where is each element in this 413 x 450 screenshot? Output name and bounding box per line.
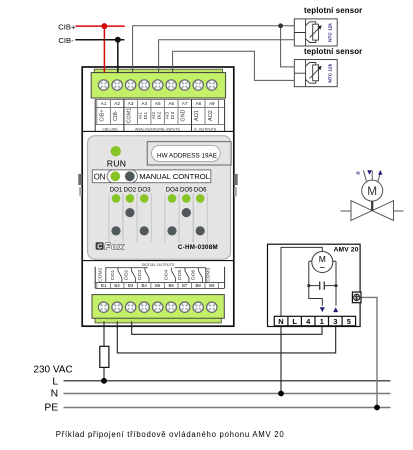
svg-text:CIB+: CIB+ [100,110,106,122]
svg-text:COM2: COM2 [97,267,103,281]
svg-text:DI1: DI1 [143,112,149,120]
svg-text:DO5: DO5 [177,269,183,279]
svg-text:ON: ON [94,172,106,181]
svg-text:A5: A5 [155,101,161,106]
svg-text:B6: B6 [169,283,175,288]
svg-text:NTC 12k: NTC 12k [328,23,333,42]
svg-text:AI1: AI1 [138,112,144,120]
svg-text:3: 3 [333,317,337,326]
svg-text:AMV 20: AMV 20 [334,246,359,253]
svg-text:B2: B2 [114,283,120,288]
svg-text:N: N [51,389,59,400]
svg-text:HW ADDRESS 19AE: HW ADDRESS 19AE [157,152,217,159]
svg-text:A9: A9 [209,101,215,106]
svg-text:A3: A3 [128,101,134,106]
svg-text:DI3: DI3 [170,112,176,120]
svg-text:RUN: RUN [107,158,127,168]
svg-text:B7: B7 [182,283,188,288]
svg-text:teplotní sensor: teplotní sensor [304,6,362,15]
svg-text:AO2: AO2 [208,110,214,121]
svg-text:CIB-: CIB- [58,36,74,45]
svg-text:CIB-: CIB- [113,110,119,121]
svg-text:PE: PE [44,402,58,413]
svg-text:A1: A1 [101,101,107,106]
svg-text:L: L [52,376,58,387]
svg-text:AI3: AI3 [165,112,171,120]
svg-text:teplotní sensor: teplotní sensor [304,47,362,56]
svg-text:A8: A8 [195,101,201,106]
svg-text:COM3: COM3 [205,267,211,281]
svg-text:MANUAL CONTROL: MANUAL CONTROL [139,172,210,181]
svg-text:COM1: COM1 [127,108,133,124]
svg-text:Příklad připojení tříbodově ov: Příklad připojení tříbodově ovládaného p… [56,430,285,439]
svg-text:A4: A4 [141,101,147,106]
svg-text:DO1: DO1 [110,269,116,279]
svg-text:DO3: DO3 [138,186,151,193]
svg-text:N: N [278,317,283,326]
svg-text:DO6: DO6 [194,186,207,193]
svg-text:A6: A6 [168,101,174,106]
svg-text:DO2: DO2 [123,269,129,279]
svg-text:GND: GND [181,110,187,122]
svg-text:1: 1 [320,317,324,326]
svg-text:Fox: Fox [104,241,124,252]
svg-text:B3: B3 [128,283,134,288]
svg-text:NTC 12k: NTC 12k [328,63,333,82]
svg-text:DO4: DO4 [163,269,169,279]
svg-text:DI2: DI2 [156,112,162,120]
svg-text:DIGITAL OUTPUTS: DIGITAL OUTPUTS [142,263,175,267]
svg-text:DO6: DO6 [190,269,196,279]
svg-text:DO4: DO4 [166,186,179,193]
svg-text:DO5: DO5 [180,186,193,193]
svg-text:DO1: DO1 [110,186,123,193]
svg-text:B5: B5 [155,283,161,288]
svg-text:230 VAC: 230 VAC [33,365,72,376]
svg-text:CIB+: CIB+ [58,22,76,31]
svg-text:DO2: DO2 [124,186,137,193]
svg-text:A7: A7 [182,101,188,106]
svg-text:M: M [367,184,377,198]
svg-text:C-HM-0308M: C-HM-0308M [178,244,218,251]
svg-text:B4: B4 [142,283,148,288]
svg-text:AI2: AI2 [151,112,157,120]
svg-text:DO3: DO3 [137,269,143,279]
svg-text:L: L [292,317,297,326]
svg-text:AO1: AO1 [194,110,200,121]
svg-text:~: ~ [319,263,325,274]
svg-text:B8: B8 [196,283,202,288]
svg-text:5: 5 [347,317,351,326]
svg-text:A2: A2 [114,101,120,106]
svg-text:B9: B9 [209,283,215,288]
svg-text:B1: B1 [101,283,107,288]
